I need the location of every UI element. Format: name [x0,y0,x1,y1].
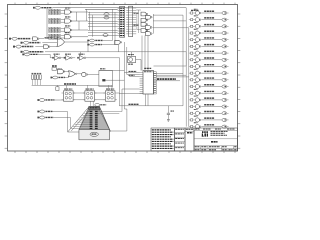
net name label [204,50,214,52]
nand gate U9C [141,29,148,33]
company logo [202,131,208,136]
wire power rail [32,84,112,86]
output buffer row: resistor R26 [189,52,193,54]
wire cluster outputs vertical [152,14,154,34]
net name label [204,17,214,19]
output buffer row: resistor R30 [189,79,193,81]
nand gate U9B [146,26,153,30]
net label stub [103,34,108,37]
net label PTR_AML [87,39,103,42]
buffer gate U14 [193,23,201,29]
wire to output column row1 [153,14,183,16]
wire [105,79,124,81]
buffer gate U18 [193,49,201,55]
wire cluster crossing [136,10,141,33]
connector pin oval P7 [222,52,229,55]
nand gate U8C [141,18,148,22]
resistor R6 [56,85,59,90]
net name label [204,64,214,66]
output buffer row: resistor R20 [189,12,193,14]
nand gate U5C [58,69,65,74]
or gate U4A [57,38,65,47]
resistor network RN2 [49,18,61,23]
net name label [204,24,214,26]
connector pin oval P9 [222,65,229,68]
nand gate U9A [141,22,148,26]
buffer Q3 [82,72,88,76]
wire [86,57,120,59]
wire [52,111,67,113]
connector pin oval P17 [222,118,229,121]
wire [126,109,128,131]
wire output net [201,39,221,41]
wire [89,12,91,30]
net label AGND_SENSE [22,53,38,56]
ic U1 right pin numbers [154,72,157,94]
connector pin oval P11 [222,78,229,81]
wire [54,99,63,101]
wire [86,9,88,21]
connector J2 left pin stubs [126,8,128,34]
filter FL3 [103,89,117,101]
net name label [204,70,214,72]
net name label [45,37,54,39]
net name label [204,124,214,126]
wire output net [201,126,221,128]
wire stub to FL3 [108,85,110,91]
connector pin oval P3 [222,25,229,28]
inverter U5A [52,54,61,60]
wire output net [201,25,221,27]
wire [61,57,64,59]
net name label [204,97,214,99]
output buffer row: resistor R31 [189,85,193,87]
net name label [204,84,214,86]
wire bus to J1 [88,23,118,25]
net name label [204,77,214,79]
output buffer row: resistor R27 [189,59,193,61]
wire [118,93,120,106]
wire [154,65,187,67]
net name label [204,57,214,59]
and gate U4A [61,26,72,32]
buffer gate U23 [193,83,201,89]
net name label [204,44,214,46]
wire fan right of J3 [98,112,122,114]
module outline box [99,69,113,87]
wire [53,117,70,119]
buffer gate U17 [193,43,201,49]
wire gate output [65,41,89,43]
wire [80,52,82,56]
connector pin oval P4 [222,31,229,34]
wire [78,21,80,30]
inverter U3A [33,37,39,41]
nand gate U8B [146,15,153,19]
wire output net [201,79,221,81]
net name label [204,90,214,92]
output buffer row: resistor R35 [189,112,193,114]
wire [121,89,123,112]
title block notes box [151,128,175,151]
wire [54,38,58,40]
net label A_CLKOUT [33,6,52,9]
buffer gate U13 [193,16,201,22]
connector J2 strip [129,6,133,36]
wire output net [201,86,221,88]
output buffer row: resistor R22 [189,25,193,27]
net name label [204,104,214,106]
buffer gate U29 [193,123,201,129]
connector J3 flange edge right [100,107,111,131]
connector pin oval P12 [222,85,229,88]
net label PBRST [51,76,65,79]
net name label [204,110,214,112]
net label stub [104,16,109,19]
wire output net [201,45,221,47]
wire to U1 pin [122,88,140,90]
wire filters to PTR net [117,92,119,94]
relay K1 [128,52,141,71]
resistor R5 [52,68,57,71]
ic U1 left pins [140,73,143,94]
wire [99,70,125,72]
title block lower cells [194,146,238,151]
wire bus to J1 [88,32,118,34]
wire output net [201,12,221,14]
wire [123,80,125,109]
wire output net [201,92,221,94]
wire verticals above U1 left [124,42,126,80]
wire vertical bus A [182,15,184,106]
connector pin oval P2 [222,18,229,21]
ic U1 [143,68,154,94]
output buffer row: resistor R21 [189,19,193,21]
wire gate output [72,11,88,13]
net name label [204,117,214,119]
wire [77,73,82,75]
connector J3 inner edge left [71,110,89,131]
net label row EXT_CLK [21,50,44,53]
wire bus to J1 [85,8,118,10]
wire [35,46,43,48]
wire to output column row2 [153,20,186,22]
and gate U3A [61,17,72,23]
inverter U3B [44,45,50,49]
connector J2 right pin stubs [133,8,137,34]
connector J3 housing [79,107,109,140]
net label PTR_ALE [129,103,140,105]
buffer gate U20 [193,63,201,69]
connector pin oval P1 [222,11,229,14]
wire gate output [72,36,88,38]
connector pin oval P14 [222,98,229,101]
wire [72,57,75,59]
resistor network RN1 [49,9,61,14]
wire [46,8,48,39]
buffer gate U25 [193,96,201,102]
net label PWR_GOOD [37,99,54,102]
wire output net [201,32,221,34]
resistor R5 value label [52,65,57,67]
capacitor C9 [167,106,174,122]
wire output net [201,65,221,67]
wire [65,77,69,79]
wire [85,8,118,10]
connector pin oval P15 [222,105,229,108]
wire [124,108,127,110]
wire output net [201,99,221,101]
wire output net [201,52,221,54]
output buffer row: resistor R28 [189,65,193,67]
title block revision strip [175,128,186,151]
wire [112,9,114,40]
wire output net [201,106,221,108]
and gate U5A [61,33,72,39]
wire [70,118,72,129]
nand gate U8A [141,12,148,16]
wire U1 bottom down [146,94,149,106]
net label stub [104,13,109,16]
net label row DTR [21,41,41,44]
buffer gate U27 [193,109,201,115]
connector J3 top plate [89,106,100,109]
wire [68,76,70,78]
wire stub to FL1 [66,85,68,91]
and gate U2A [61,8,72,14]
net label N12V [37,116,53,119]
wire output net [201,19,221,21]
nand gate U9D [146,32,153,36]
net label below filters [95,104,106,107]
wire [67,112,69,133]
wire [39,38,44,40]
wire [102,44,115,46]
wire [31,38,34,40]
wire FL2 to J3 stubs [91,101,94,106]
connector pin oval P10 [222,72,229,75]
wire vertical bus C [188,28,190,127]
wire [88,74,99,76]
title block title divider [194,138,238,140]
title block main box [194,128,238,151]
connector J1 [120,6,125,37]
wire U1 left connections [120,73,143,94]
company address text [211,131,228,135]
wire [92,15,94,37]
wire [156,80,180,82]
wire [50,46,57,48]
wire [65,71,69,73]
wire gate output [72,29,88,31]
wire cluster down to U1 [142,36,148,71]
output buffer row: resistor R29 [189,72,193,74]
connector pin oval P18 [222,125,229,128]
output buffer row: resistor R25 [189,45,193,47]
wire [76,12,78,21]
wire vertical bus B [185,8,187,127]
wire [103,40,113,42]
wire [49,54,51,57]
wire bus to J1 [88,14,118,16]
output buffer row: resistor R32 [189,92,193,94]
buffer gate U21 [193,69,201,75]
wire output net [201,59,221,61]
output buffer row: resistor R34 [189,105,193,107]
net stub labels left of U1 [129,71,137,75]
wire bus to J1 [88,17,118,19]
output buffer row: resistor R33 [189,99,193,101]
wire [42,42,57,44]
inverter U7A [77,54,86,60]
net label column header [191,9,199,11]
wire [57,68,58,70]
wire bus to J1 [88,34,118,36]
net name label [204,10,214,12]
sensor S1 [102,79,105,81]
wire fan left of J3 [71,112,90,129]
net label POPUP [87,43,102,46]
net label FUSED_PWR [64,83,76,85]
wire output net [201,119,221,121]
wire [68,131,80,133]
wire [109,130,127,132]
wire between filters [73,93,105,100]
net label T_AML lower [134,24,140,26]
output buffer row: resistor R23 [189,32,193,34]
inverter U6A [64,54,72,60]
wire gate output [72,20,88,22]
wire [114,12,116,44]
output buffer row: resistor R37 [189,126,193,128]
resistor network RN3 [49,27,61,32]
and gate U7B [115,40,122,44]
connector J3 pins [90,111,98,129]
buffer gate U22 [193,76,201,82]
wire [50,57,52,59]
connector pin oval P5 [222,38,229,41]
title block LTR ECN cell [185,128,194,151]
net label T_AML upper [134,12,140,14]
wire [111,85,113,93]
wire [87,42,89,52]
resistor network RN4 [49,34,61,39]
connector pin oval P8 [222,58,229,61]
net label row SER_OUT [9,37,31,40]
connector J1 pin stubs [118,8,120,35]
output buffer row: resistor R36 [189,119,193,121]
wire [39,53,51,55]
output buffer row: resistor R24 [189,39,193,41]
net label row RTS [13,45,33,48]
buffer gate U24 [193,89,201,95]
wire bus to J1 [88,26,118,28]
jumper block JP1 [32,73,42,85]
wire [117,45,119,52]
wire to output column row3 [153,27,189,29]
connector pin oval P6 [222,45,229,48]
wire [119,58,121,94]
wire output net [201,72,221,74]
net label P12V [37,110,52,113]
filter FL1 [62,89,76,101]
wire bus to J1 [88,11,118,13]
wire bundle U1 to bus [156,74,189,77]
connector pin oval P16 [222,112,229,115]
buffer gate U12 [193,9,201,15]
wire horizontal under U1 [119,105,183,107]
wire bus to J1 [88,20,118,22]
buffer gate U26 [193,103,201,109]
buffer gate U19 [193,56,201,62]
net name label [204,30,214,32]
connector J3 flange edge left [68,107,89,131]
buffer gate U15 [193,29,201,35]
connector pin oval P13 [222,92,229,95]
wire output net [201,112,221,114]
xor gate U5D [69,71,77,77]
wire top net [53,7,186,9]
buffer gate U16 [193,36,201,42]
wire long horizontal mid [45,51,186,53]
connector J3 designator oval [90,132,98,136]
title text [211,141,218,143]
wire [185,52,187,66]
filter FL2 [83,89,97,101]
buffer gate U28 [193,116,201,122]
wire stub to FL2 [87,85,89,91]
net label MODEM_RESET [157,78,176,80]
wire bus to J1 [88,29,118,31]
net name label [204,37,214,39]
